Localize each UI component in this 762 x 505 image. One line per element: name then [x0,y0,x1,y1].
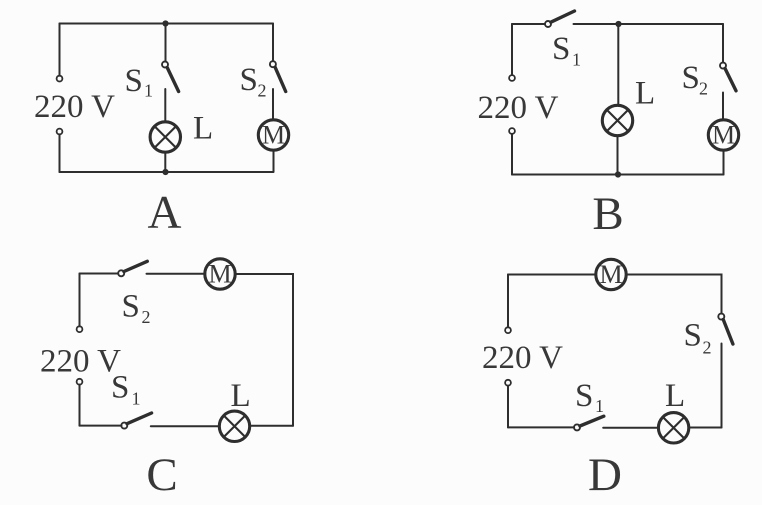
svg-text:2: 2 [699,79,708,99]
wire A top [60,23,274,25]
motor M (circuit C) [205,259,235,289]
switch S2 (circuit B) [720,63,736,91]
wire A left upper [59,24,61,76]
svg-text:1: 1 [595,396,604,416]
svg-text:220 V: 220 V [40,344,121,380]
wire B middle branch lower [617,136,619,175]
wire A right branch mid [272,89,274,119]
svg-text:M: M [262,121,285,150]
motor M (circuit D) [596,259,626,289]
svg-text:L: L [635,76,655,112]
svg-text:S: S [552,31,570,67]
wire A bottom [60,171,274,173]
svg-text:M: M [712,121,735,150]
svg-text:S: S [122,289,140,325]
wire B top left [512,23,545,25]
svg-text:S: S [682,60,700,96]
node A top junction [162,20,168,26]
svg-text:L: L [231,378,251,414]
lamp L (circuit A) [150,122,180,152]
lamp L (circuit C) [219,411,249,441]
wire C left lower [79,385,81,426]
wire C bottom mid [151,425,219,427]
wire B bottom [512,174,724,176]
wire D bottom right [689,427,721,429]
svg-text:M: M [208,260,231,289]
svg-text:D: D [588,449,622,501]
wire D top left [508,274,595,276]
switch S2 (circuit C) [118,261,147,276]
wire D bottom mid [603,427,658,429]
wire D left lower [507,386,509,428]
motor M (circuit B) [708,120,738,150]
wire B right mid [722,93,724,120]
wire C top right [235,274,293,426]
wire C top mid [147,273,206,275]
svg-text:2: 2 [142,307,151,327]
node B bottom junction [615,171,621,177]
battery terminal C upper [77,326,83,332]
wire B right lower [723,152,725,175]
wire B left upper [511,24,513,75]
wire A middle branch mid [164,89,166,121]
svg-text:S: S [111,370,129,406]
svg-text:1: 1 [572,50,581,70]
wire C bottom right [250,425,293,427]
battery terminal A upper [57,76,63,82]
battery terminal D upper [505,327,511,333]
svg-text:B: B [592,188,623,240]
wire B top right [574,23,724,25]
svg-text:S: S [575,378,593,414]
battery terminal D lower [505,380,511,386]
svg-text:L: L [665,378,685,414]
wire A right branch upper [272,24,274,62]
svg-text:1: 1 [132,389,141,409]
switch S1 (circuit C) [121,413,151,429]
wire D top right [627,275,722,314]
svg-text:220 V: 220 V [34,89,115,125]
lamp L (circuit D) [658,413,688,443]
svg-text:1: 1 [144,81,153,101]
wire C bottom left [80,425,122,427]
battery terminal A lower [57,129,63,135]
wire A right branch lower [273,152,275,173]
motor M (circuit A) [258,120,288,150]
wire D bottom left [508,426,574,428]
svg-text:S: S [240,62,258,98]
svg-text:2: 2 [703,338,712,358]
switch S1 (circuit B) [545,11,575,27]
wire B left lower [511,134,513,175]
switch S1 (circuit A) [162,62,179,92]
battery terminal B lower [509,128,515,134]
wire D left upper [507,275,509,328]
wire B middle branch upper [617,24,619,104]
svg-text:220 V: 220 V [478,90,559,126]
wire C top left [80,273,119,275]
lamp L (circuit B) [602,105,632,135]
svg-text:L: L [193,111,213,147]
svg-text:M: M [599,260,622,289]
svg-text:220 V: 220 V [482,340,563,376]
switch S1 (circuit D) [574,416,604,430]
svg-text:A: A [148,187,182,239]
wire B right upper [722,24,724,63]
svg-text:S: S [125,63,143,99]
node A bottom junction [162,169,168,175]
svg-text:S: S [684,318,702,354]
battery terminal B upper [509,75,515,81]
switch S2 (circuit A) [270,61,286,91]
wire A middle branch lower [164,153,166,173]
wire D right lower [721,344,723,428]
battery terminal C lower [77,379,83,385]
wire C left upper [79,274,81,327]
wire A middle branch upper [165,24,167,62]
svg-text:2: 2 [258,81,267,101]
svg-text:C: C [146,449,177,501]
switch S2 (circuit D) [718,314,733,344]
node B top junction [615,21,621,27]
wire A left lower [59,134,61,172]
